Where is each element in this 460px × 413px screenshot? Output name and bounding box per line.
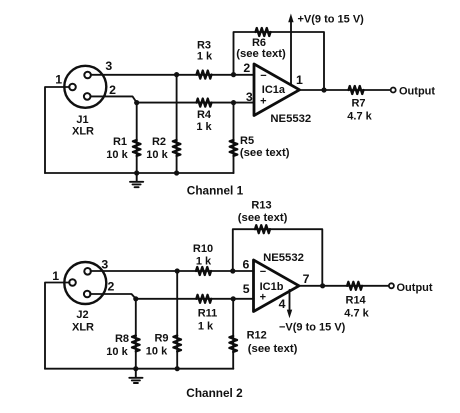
wire op-amp output channel 2 [299, 285, 389, 287]
svg-text:(see text): (see text) [248, 343, 298, 355]
junction node R10/R9 [175, 268, 180, 273]
junction node R6/pin2 [231, 72, 236, 77]
svg-text:NE5532: NE5532 [263, 252, 304, 264]
J2 pin 2 contact [84, 291, 91, 298]
junction node output/R13 [320, 283, 325, 288]
wire R2 branch vertical [176, 75, 178, 173]
svg-text:+: + [260, 292, 266, 304]
connector J2 XLR body [64, 262, 106, 304]
resistor R8 [132, 336, 140, 352]
junction node bus/R2 [174, 170, 179, 175]
wire J1 pin2 with jog [91, 96, 137, 102]
svg-text:R11: R11 [198, 308, 218, 320]
resistor R11 [196, 295, 211, 303]
svg-text:+V(9 to 15 V): +V(9 to 15 V) [298, 14, 365, 26]
junction node R5/pin3 [231, 100, 236, 105]
svg-text:XLR: XLR [72, 126, 94, 138]
resistor R6 [256, 28, 271, 36]
svg-text:R10: R10 [193, 243, 213, 255]
svg-text:4.7 k: 4.7 k [344, 308, 369, 320]
wire R1 branch vertical [136, 103, 138, 173]
svg-text:R13: R13 [251, 200, 271, 212]
svg-text:1: 1 [55, 73, 62, 87]
wire +V supply stub [290, 21, 292, 86]
svg-text:2: 2 [243, 61, 250, 75]
resistor R3 [197, 71, 212, 79]
J1 pin 2 contact [84, 93, 91, 100]
wire R8 branch vertical [135, 299, 137, 369]
svg-text:R6: R6 [252, 37, 266, 49]
svg-text:(see text): (see text) [236, 48, 286, 60]
svg-text:4.7 k: 4.7 k [347, 111, 372, 123]
junction node bus/R1 [134, 170, 139, 175]
svg-text:1 k: 1 k [198, 321, 214, 333]
-V arrowhead [287, 310, 292, 319]
svg-text:3: 3 [105, 59, 112, 73]
resistor R9 [173, 336, 181, 352]
svg-text:10 k: 10 k [146, 345, 168, 357]
svg-text:R8: R8 [115, 333, 129, 345]
svg-text:1: 1 [296, 73, 303, 87]
svg-text:+: + [260, 96, 266, 108]
junction node output/R6 [321, 87, 326, 92]
svg-text:1 k: 1 k [197, 51, 213, 63]
svg-text:2: 2 [107, 279, 114, 293]
wire R12 branch vertical [232, 299, 234, 369]
svg-text:7: 7 [303, 272, 310, 286]
ground symbol channel 1 [130, 173, 143, 187]
resistor R4 [197, 99, 212, 107]
wire op-amp output channel 1 [300, 89, 391, 91]
wire J2 pin3 to op-amp pin6 net [91, 270, 254, 272]
svg-text:1 k: 1 k [196, 121, 212, 133]
wire to op-amp pin5 net [136, 298, 254, 300]
svg-text:3: 3 [246, 90, 253, 104]
resistor R2 [173, 140, 181, 156]
connector J1 XLR body [64, 66, 106, 108]
op-amp U1 IC1a triangle [254, 64, 300, 116]
svg-text:1: 1 [52, 269, 59, 283]
svg-text:−V(9 to 15 V): −V(9 to 15 V) [279, 322, 346, 334]
resistor R12 [229, 336, 237, 352]
svg-text:−: − [260, 70, 266, 82]
svg-text:−: − [260, 266, 266, 278]
svg-text:10 k: 10 k [106, 149, 128, 161]
svg-text:Channel 1: Channel 1 [187, 184, 244, 198]
svg-text:3: 3 [101, 257, 108, 271]
svg-text:1 k: 1 k [196, 256, 212, 268]
svg-text:XLR: XLR [72, 322, 94, 334]
output terminal channel 1 [391, 88, 396, 93]
svg-text:R2: R2 [152, 136, 166, 148]
wire J1 pin3 to op-amp pin2 net [91, 74, 254, 76]
resistor R5 [230, 140, 238, 156]
svg-text:R9: R9 [154, 332, 168, 344]
junction node R1/pin2 wire [134, 100, 139, 105]
wire to op-amp pin3 net [137, 102, 254, 104]
svg-text:R12: R12 [247, 330, 267, 342]
svg-text:10 k: 10 k [106, 346, 128, 358]
resistor R1 [133, 140, 141, 156]
resistor R7 [349, 86, 364, 94]
J1 pin 1 contact [69, 84, 76, 91]
resistor R13 [255, 225, 270, 233]
svg-text:Output: Output [399, 85, 435, 97]
svg-text:R14: R14 [346, 295, 367, 307]
svg-text:NE5532: NE5532 [270, 113, 311, 125]
junction node R3/R2 [174, 72, 179, 77]
svg-text:2: 2 [109, 83, 116, 97]
resistor R10 [196, 267, 211, 275]
junction node bus/R8 [133, 366, 138, 371]
resistor R14 [347, 282, 362, 290]
junction node bus/R9 [175, 366, 180, 371]
svg-text:R1: R1 [113, 136, 127, 148]
op-amp U2 IC1b triangle [254, 260, 300, 312]
svg-text:R4: R4 [197, 109, 212, 121]
output terminal channel 2 [389, 283, 394, 288]
wire J2 pin1 to ground bus [45, 283, 70, 369]
J1 pin 3 contact [84, 72, 91, 79]
wire R5 branch vertical [233, 103, 235, 173]
svg-text:J1: J1 [76, 114, 88, 126]
svg-text:(see text): (see text) [238, 212, 288, 224]
svg-text:5: 5 [243, 282, 250, 296]
svg-text:10 k: 10 k [146, 149, 168, 161]
wire R9 branch vertical [176, 271, 178, 369]
wire R6 feedback loop [234, 32, 325, 90]
svg-text:IC1a: IC1a [262, 84, 286, 96]
svg-text:R7: R7 [351, 98, 365, 110]
J2 pin 3 contact [84, 268, 91, 275]
junction node R12/pin5 [231, 296, 236, 301]
svg-text:IC1b: IC1b [260, 281, 284, 293]
ground symbol channel 2 [129, 369, 142, 383]
svg-text:6: 6 [242, 258, 249, 272]
svg-text:4: 4 [279, 297, 286, 311]
wire -V supply stub [289, 290, 291, 311]
svg-text:R5: R5 [240, 135, 254, 147]
svg-text:J2: J2 [76, 309, 88, 321]
wire ground bus channel 1 [45, 172, 234, 174]
junction node R13/pin6 [230, 268, 235, 273]
svg-text:Output: Output [397, 282, 433, 294]
svg-text:(see text): (see text) [240, 147, 290, 159]
wire ground bus channel 2 [45, 368, 233, 370]
J2 pin 1 contact [69, 279, 76, 286]
wire J2 pin2 with jog [90, 294, 136, 299]
wire J1 pin1 to ground bus [45, 87, 70, 173]
wire R13 feedback loop [233, 229, 322, 286]
junction node R8/pin2 wire [133, 296, 138, 301]
+V arrowhead [288, 14, 293, 23]
svg-text:Channel 2: Channel 2 [186, 386, 243, 400]
